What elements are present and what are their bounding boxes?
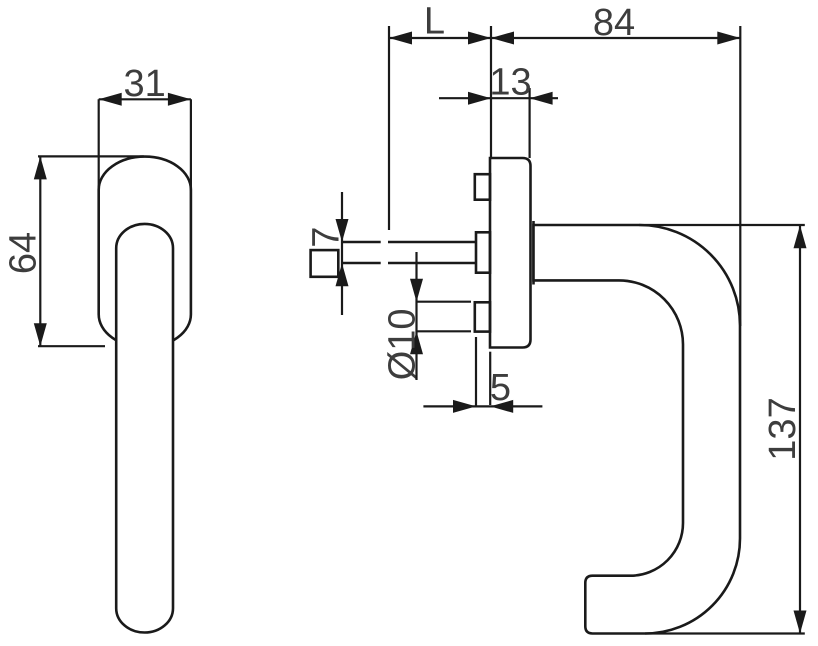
svg-text:Ø10: Ø10 <box>382 308 424 380</box>
dimension L and 84 <box>389 1 740 45</box>
svg-text:137: 137 <box>762 397 804 460</box>
svg-text:5: 5 <box>490 367 511 409</box>
grip front view <box>116 224 173 633</box>
spindle side view <box>342 242 476 263</box>
84 right extension line <box>739 26 741 326</box>
dimension 64 <box>3 156 144 346</box>
svg-text:31: 31 <box>124 63 166 105</box>
upper fixing boss <box>475 174 490 200</box>
svg-text:64: 64 <box>3 232 45 274</box>
rosette back extension line <box>528 88 530 158</box>
svg-text:7: 7 <box>306 227 348 248</box>
lever side view <box>534 225 741 634</box>
neck collar <box>532 221 535 285</box>
dimension 31 <box>99 63 191 191</box>
svg-text:84: 84 <box>593 2 635 44</box>
rosette side view <box>490 158 531 348</box>
dimension 5 <box>423 337 542 413</box>
svg-text:13: 13 <box>489 62 531 104</box>
svg-text:L: L <box>424 1 445 43</box>
spindle square end view <box>311 250 339 277</box>
dimension 13 <box>439 62 558 105</box>
dimension 7 <box>306 192 349 315</box>
dimension L extension line <box>388 26 390 230</box>
dimension 137 <box>639 225 807 634</box>
spindle hub <box>476 232 490 272</box>
lower fixing boss (diameter 10) <box>475 302 490 331</box>
dimension diameter 10 <box>382 252 472 380</box>
rosette face extension line <box>490 26 492 158</box>
rosette front view <box>99 157 191 348</box>
